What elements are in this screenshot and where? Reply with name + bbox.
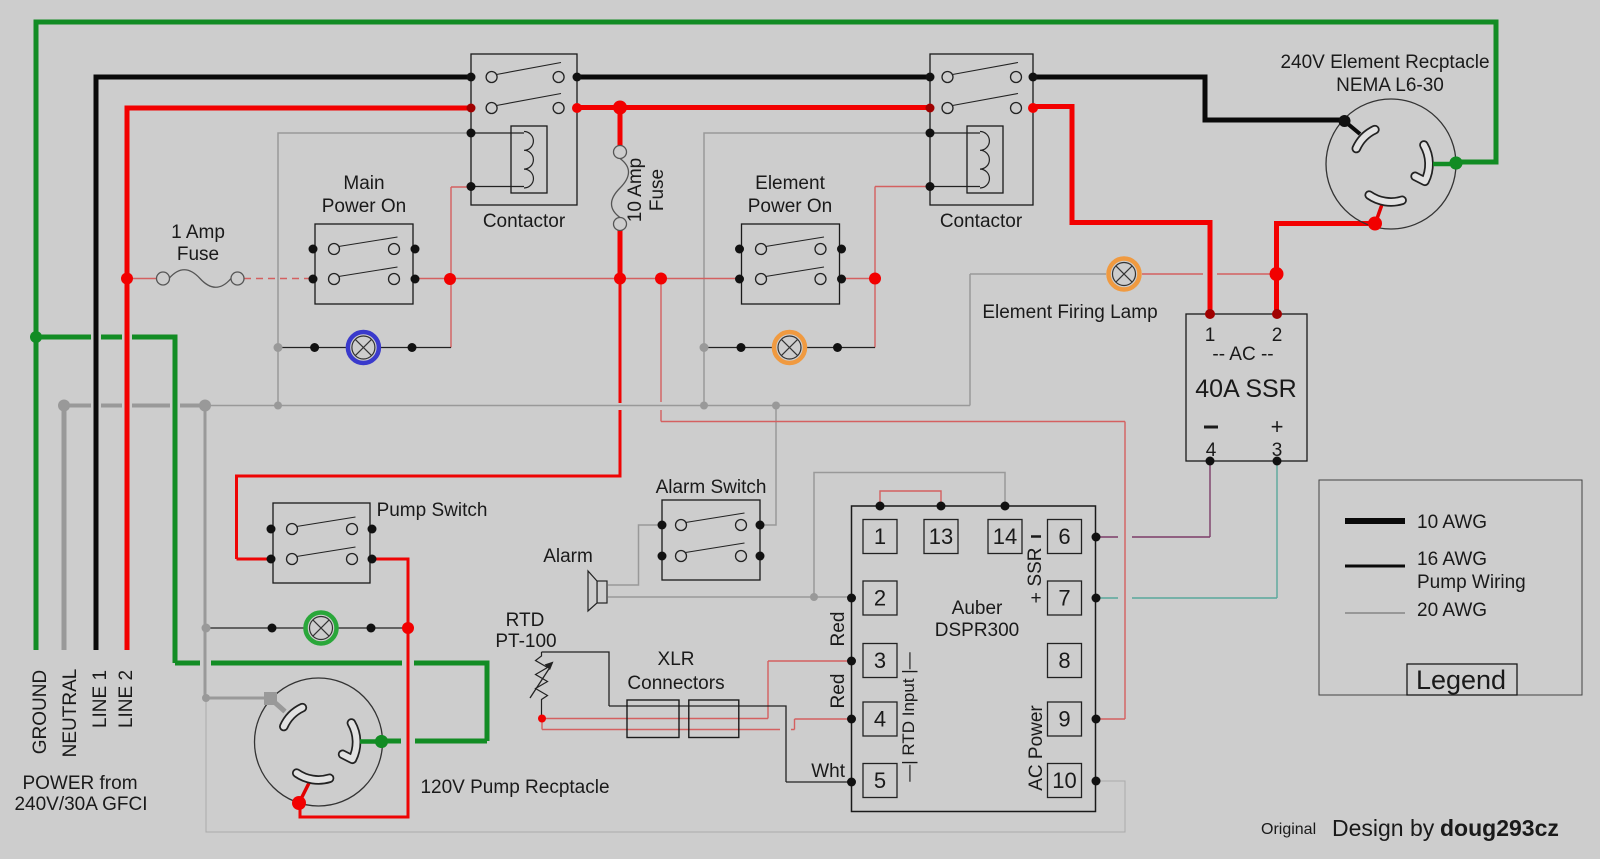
svg-text:120V Pump Recptacle: 120V Pump Recptacle <box>420 777 609 798</box>
svg-text:240V/30A GFCI: 240V/30A GFCI <box>14 794 147 815</box>
svg-text:2: 2 <box>1272 325 1283 346</box>
svg-text:Alarm Switch: Alarm Switch <box>656 477 767 498</box>
svg-text:20 AWG: 20 AWG <box>1417 600 1487 621</box>
svg-text:Red: Red <box>828 674 849 709</box>
svg-text:NEMA L6-30: NEMA L6-30 <box>1336 75 1444 96</box>
svg-text:Original: Original <box>1261 821 1316 838</box>
svg-text:10 Amp: 10 Amp <box>625 158 646 222</box>
svg-text:Element Firing Lamp: Element Firing Lamp <box>982 302 1157 323</box>
svg-text:Pump Switch: Pump Switch <box>377 500 488 521</box>
svg-text:Wht: Wht <box>811 761 846 782</box>
svg-text:NEUTRAL: NEUTRAL <box>60 669 81 758</box>
svg-text:Pump Wiring: Pump Wiring <box>1417 572 1526 593</box>
svg-text:6: 6 <box>1058 524 1070 549</box>
svg-text:8: 8 <box>1058 648 1070 673</box>
svg-text:Design by: Design by <box>1332 815 1435 841</box>
svg-text:Contactor: Contactor <box>940 211 1023 232</box>
svg-text:XLR: XLR <box>658 649 695 670</box>
svg-text:10: 10 <box>1052 768 1076 793</box>
svg-text:LINE 2: LINE 2 <box>116 670 137 728</box>
svg-text:1: 1 <box>1205 325 1216 346</box>
svg-text:RTD: RTD <box>506 610 545 631</box>
svg-text:7: 7 <box>1058 586 1070 611</box>
svg-text:Power On: Power On <box>322 196 406 217</box>
svg-text:3: 3 <box>1272 440 1283 461</box>
svg-text:5: 5 <box>874 768 886 793</box>
svg-text:doug293cz: doug293cz <box>1440 815 1559 841</box>
svg-text:SSR: SSR <box>1025 547 1046 586</box>
svg-text:Element: Element <box>755 173 825 194</box>
svg-text:Fuse: Fuse <box>177 244 219 265</box>
svg-text:+: + <box>1030 588 1041 609</box>
svg-text:40A SSR: 40A SSR <box>1195 375 1296 403</box>
svg-text:10 AWG: 10 AWG <box>1417 512 1487 533</box>
svg-text:4: 4 <box>1206 440 1217 461</box>
svg-text:-- AC --: -- AC -- <box>1212 344 1273 365</box>
svg-text:PT-100: PT-100 <box>495 631 556 652</box>
svg-text:AC Power: AC Power <box>1026 705 1047 791</box>
svg-text:13: 13 <box>929 524 953 549</box>
svg-text:16 AWG: 16 AWG <box>1417 549 1487 570</box>
svg-text:3: 3 <box>874 648 886 673</box>
svg-text:DSPR300: DSPR300 <box>935 620 1020 641</box>
svg-text:Main: Main <box>343 173 384 194</box>
svg-text:+: + <box>1271 414 1284 439</box>
svg-text:GROUND: GROUND <box>30 670 51 754</box>
svg-text:—| RTD Input |—: —| RTD Input |— <box>899 652 918 781</box>
svg-text:1 Amp: 1 Amp <box>171 222 225 243</box>
svg-text:Power On: Power On <box>748 196 832 217</box>
svg-text:Alarm: Alarm <box>543 546 593 567</box>
svg-text:Connectors: Connectors <box>627 673 724 694</box>
svg-text:14: 14 <box>993 524 1017 549</box>
svg-text:POWER from: POWER from <box>22 773 137 794</box>
svg-text:9: 9 <box>1058 707 1070 732</box>
svg-text:1: 1 <box>874 524 886 549</box>
svg-text:LINE 1: LINE 1 <box>90 670 111 728</box>
svg-text:2: 2 <box>874 586 886 611</box>
svg-text:240V Element Recptacle: 240V Element Recptacle <box>1280 52 1489 73</box>
svg-text:Auber: Auber <box>952 598 1003 619</box>
svg-text:Red: Red <box>828 612 849 647</box>
svg-text:Fuse: Fuse <box>647 169 668 211</box>
svg-text:4: 4 <box>874 707 886 732</box>
svg-text:Contactor: Contactor <box>483 211 566 232</box>
svg-text:Legend: Legend <box>1416 665 1506 695</box>
